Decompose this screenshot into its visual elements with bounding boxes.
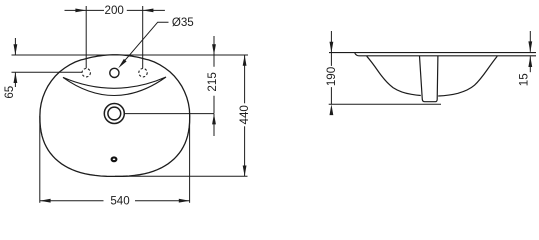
extension line 200 right: [142, 6, 144, 68]
faucet hole center Ø35: [110, 68, 119, 77]
dimension 200 arrow right: [143, 9, 154, 13]
drain bottom extension line: [329, 103, 441, 105]
dimension 15 arrow bottom: [528, 56, 532, 67]
svg-text:215: 215: [206, 72, 219, 91]
side view rim top line: [329, 52, 536, 54]
faucet hole left (dashed): [82, 69, 90, 77]
drain outer circle: [104, 104, 124, 124]
dimension 190 arrow bottom: [330, 104, 334, 115]
svg-text:540: 540: [110, 195, 129, 206]
extension line 200 left: [85, 6, 87, 68]
faucet centerline extension (left): [12, 71, 83, 73]
dimension 540 arrow left: [40, 199, 51, 203]
side view rim bottom line: [355, 53, 536, 56]
svg-text:Ø35: Ø35: [172, 16, 194, 29]
leader line Ø35: [123, 22, 169, 63]
dimension 190 arrow top: [330, 42, 334, 53]
dimension 440 arrow top: [243, 55, 247, 66]
inner bowl edge (crescent): [63, 77, 166, 96]
dimension 65 line: [14, 38, 16, 87]
top rim extension line: [12, 54, 249, 56]
drain centerline to 215: [125, 113, 214, 115]
leader arrowhead Ø35: [118, 59, 126, 68]
overflow hole mark: [112, 157, 117, 161]
side view bowl profile left: [367, 56, 421, 95]
dimension 440 line: [244, 55, 246, 176]
dimension 540 line: [40, 200, 190, 202]
dimension 200 line: [65, 9, 165, 11]
dimension 190 line: [330, 31, 332, 104]
side view bowl profile right: [438, 56, 497, 96]
dimension 65 arrow top: [14, 44, 18, 55]
dimension 215 arrow top: [212, 44, 216, 55]
dimension 65 arrow bottom: [14, 72, 18, 83]
svg-text:65: 65: [3, 86, 16, 99]
svg-text:200: 200: [105, 4, 124, 17]
dimension 15 line: [529, 31, 531, 72]
side view drain pipe: [420, 56, 438, 102]
dimension 440 arrow bottom: [243, 166, 247, 177]
dimension 215 line: [213, 36, 215, 136]
extension line 540 left: [39, 116, 41, 203]
dimension 200 arrow left: [75, 9, 86, 13]
basin outline (top view, superellipse): [40, 55, 190, 177]
bottom extension line (440): [115, 175, 248, 177]
svg-text:190: 190: [325, 67, 338, 86]
dimension 540 arrow right: [179, 199, 190, 203]
faucet hole right (dashed): [139, 69, 147, 77]
extension line 540 right: [189, 113, 191, 203]
drain inner circle: [108, 107, 121, 120]
svg-text:440: 440: [238, 105, 251, 124]
dimension 215 arrow bottom: [212, 114, 216, 125]
svg-text:15: 15: [518, 73, 531, 86]
dimension 15 arrow top: [528, 41, 532, 52]
